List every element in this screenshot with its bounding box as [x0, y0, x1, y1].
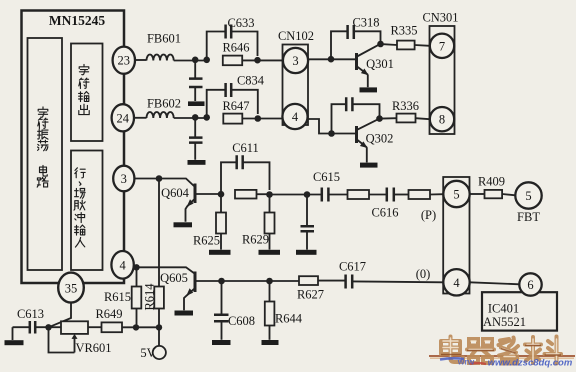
node before C615	[304, 191, 311, 198]
output connector pin 5	[443, 181, 469, 207]
svg-text:C613: C613	[17, 307, 44, 321]
svg-text:5: 5	[453, 188, 459, 202]
wire FB601 to node A1	[174, 60, 207, 62]
bypass capacitor below node	[306, 195, 308, 250]
svg-text:R409: R409	[478, 175, 505, 189]
svg-text:Q301: Q301	[366, 57, 394, 71]
svg-text:C617: C617	[339, 260, 366, 274]
node R644 junction	[266, 278, 273, 285]
output connector box	[443, 177, 469, 294]
svg-text:R644: R644	[275, 312, 303, 326]
inductor FB601	[147, 55, 174, 61]
CN102 pin 3	[283, 48, 308, 73]
potentiometer VR601	[49, 326, 62, 328]
svg-text:35: 35	[65, 281, 78, 295]
watermark char dian	[441, 337, 463, 363]
resistor R629	[269, 195, 271, 213]
watermark char qi	[467, 339, 494, 363]
svg-text:6: 6	[527, 278, 533, 292]
node Q301 collector junction	[377, 41, 384, 48]
capacitor C617	[346, 275, 353, 289]
svg-text:R614: R614	[143, 283, 157, 311]
wire pin35 down to VR601 node	[49, 303, 72, 328]
5V supply terminal	[153, 346, 166, 359]
CN301 pin 7	[430, 34, 454, 58]
svg-text:R649: R649	[95, 307, 122, 321]
svg-text:FBT: FBT	[517, 210, 540, 224]
ground below bypass cap row1	[188, 101, 205, 106]
ground Q301 emitter	[360, 87, 378, 92]
ground below R625	[209, 250, 231, 255]
wire CN102-4 to Q302 base node (with step)	[308, 119, 356, 134]
svg-text:7: 7	[439, 39, 445, 53]
feedback capacitor at Q302	[332, 104, 380, 133]
wire pin3 node down to R614 (crosses pin4 wire)	[158, 179, 160, 287]
svg-text:FB601: FB601	[147, 32, 181, 46]
wire node C1 to CN102-3	[242, 59, 283, 61]
inductor FB602	[147, 112, 174, 118]
ground below R629	[259, 250, 281, 255]
svg-text:3: 3	[121, 172, 127, 186]
wire pin24 to FB602	[134, 117, 147, 119]
resistor R644	[269, 281, 271, 302]
CN102 pin 4	[282, 104, 307, 129]
svg-text:4: 4	[119, 258, 126, 272]
svg-text:R336: R336	[392, 99, 419, 113]
resistor R409	[470, 193, 485, 195]
watermark char zi	[499, 338, 519, 364]
resistor R627	[299, 276, 318, 285]
resistor R649	[102, 322, 123, 332]
wire pin3 to base node	[134, 178, 159, 180]
svg-text:FB602: FB602	[147, 97, 181, 111]
series resistor after C615	[348, 190, 370, 199]
resistor R336	[380, 117, 397, 119]
svg-text:Q605: Q605	[160, 271, 188, 285]
capacitor C616	[387, 188, 394, 202]
wire node C2 to CN102-4	[242, 118, 283, 120]
node R614/5V junction	[156, 324, 162, 330]
svg-text:R625: R625	[193, 234, 220, 248]
IC pin 4	[111, 251, 133, 279]
node B1 junction	[203, 57, 210, 64]
wire C617 to connector pin 4	[353, 280, 443, 283]
svg-text:CN301: CN301	[422, 11, 458, 25]
node A2 junction	[192, 114, 199, 121]
svg-text:MN15245: MN15245	[49, 13, 105, 28]
svg-text:C633: C633	[227, 16, 254, 30]
node R615 bottom junction	[133, 324, 139, 330]
wire connector-4 to terminal 6	[470, 282, 520, 284]
ground Q302 emitter	[360, 163, 378, 168]
wire R649 to 5V rail	[122, 326, 159, 328]
svg-text:Q604: Q604	[161, 186, 190, 200]
capacitor C633 parallel branch	[207, 32, 258, 60]
wire FB602 to node A2	[174, 117, 207, 119]
svg-text:R647: R647	[222, 99, 249, 113]
svg-text:C834: C834	[237, 74, 265, 88]
inner block: character oscillator circuit	[28, 38, 63, 270]
resistor R646	[223, 56, 242, 66]
IC pin 23	[113, 47, 135, 74]
svg-text:IC401: IC401	[488, 302, 519, 316]
ground below bypass cap	[296, 250, 317, 255]
node R629 junction	[266, 191, 273, 198]
svg-text:R627: R627	[297, 288, 324, 302]
inner block: line/field pulse input	[71, 151, 103, 271]
svg-text:AN5521: AN5521	[483, 315, 526, 329]
capacitor C615	[322, 188, 329, 202]
IC pin 3	[113, 166, 134, 192]
resistor R625	[220, 194, 222, 212]
transistor Q604	[194, 184, 197, 204]
series resistor before connector	[409, 190, 431, 199]
node C2 junction	[254, 115, 261, 122]
svg-text:24: 24	[117, 111, 130, 125]
FBT terminal circle 5	[515, 182, 541, 208]
svg-text:5: 5	[525, 189, 531, 203]
terminal circle 6	[519, 273, 541, 295]
resistor R615	[136, 267, 138, 286]
bypass capacitor at node A1	[194, 60, 196, 101]
wire to node C615	[270, 194, 321, 196]
svg-text:C608: C608	[228, 314, 255, 328]
ground below R644	[262, 340, 279, 345]
capacitor C608	[221, 281, 223, 340]
svg-text:R615: R615	[104, 290, 131, 304]
wire CN102-3 to Q301 base node	[308, 58, 355, 60]
svg-text:www.dzsc8dq.com: www.dzsc8dq.com	[488, 358, 573, 369]
svg-text:Q302: Q302	[366, 132, 394, 146]
svg-text:4: 4	[292, 110, 299, 124]
ground below bypass cap row2	[188, 160, 206, 165]
svg-text:R629: R629	[242, 233, 269, 247]
capacitor C611 parallel branch	[221, 162, 270, 194]
watermark char liao	[525, 337, 561, 364]
IC U601 MN15245 outline	[22, 11, 125, 284]
wire pin4 to R615 node	[133, 266, 195, 274]
svg-text:C615: C615	[313, 170, 340, 184]
wire pin23 to FB601	[135, 59, 147, 61]
capacitor C318 feedback branch	[331, 31, 381, 59]
ground below C608	[212, 340, 231, 345]
resistor R335	[381, 44, 398, 45]
svg-text:VR601: VR601	[75, 341, 111, 355]
bypass capacitor at node A2	[194, 117, 196, 159]
ground at C613	[12, 327, 14, 340]
transistor Q301	[355, 53, 358, 70]
connector CN301 box	[430, 26, 455, 134]
node Q604 collector junction	[218, 191, 225, 198]
connector CN102 box	[283, 45, 309, 126]
node Q302 collector junction	[376, 115, 383, 122]
node VR601 junction	[45, 324, 51, 330]
node A1 junction	[192, 57, 199, 64]
node C1 junction	[254, 57, 261, 64]
svg-text:C616: C616	[371, 206, 398, 220]
svg-text:C318: C318	[352, 16, 379, 30]
resistor between Q604 collector nodes	[235, 190, 257, 199]
resistor R614	[154, 287, 164, 309]
capacitor C834 parallel branch	[207, 90, 258, 118]
watermark dark accents	[441, 346, 561, 356]
watermark strike line	[429, 355, 575, 357]
svg-text:R335: R335	[390, 24, 417, 38]
IC pin 35	[58, 273, 84, 303]
ground Q605 emitter	[175, 311, 194, 316]
node Q301 base junction	[328, 56, 335, 63]
resistor R647	[223, 114, 242, 124]
wire Q605 collector row	[222, 280, 300, 282]
IC401 box	[482, 292, 557, 330]
svg-text:23: 23	[118, 54, 131, 68]
inner block: character output	[71, 44, 103, 142]
watermark blue accents	[440, 358, 464, 359]
svg-text:wrw: wrw	[457, 357, 475, 367]
svg-text:(0): (0)	[416, 267, 431, 281]
transistor Q302	[355, 126, 358, 143]
IC pin 24	[112, 104, 134, 131]
svg-text:(P): (P)	[421, 208, 436, 222]
svg-text:R646: R646	[222, 41, 249, 55]
node pin3 junction	[156, 175, 163, 182]
wire node to Q604 base	[159, 179, 195, 187]
svg-text:5V: 5V	[140, 346, 155, 360]
svg-text:4: 4	[453, 276, 460, 290]
node C608 junction	[218, 278, 225, 285]
node R615 top junction	[133, 264, 139, 270]
node B2 junction	[203, 114, 210, 121]
node Q302 base junction	[328, 130, 335, 137]
VR601 wiper return loop	[49, 327, 75, 352]
svg-text:C611: C611	[232, 141, 259, 155]
wire C615 to resistor	[329, 194, 348, 196]
output connector pin 4	[443, 269, 469, 295]
svg-text:CN102: CN102	[278, 29, 314, 43]
svg-text:8: 8	[439, 113, 445, 127]
wire C616 to resistor	[395, 194, 409, 196]
ground Q604 emitter	[174, 222, 193, 227]
transistor Q605	[194, 272, 197, 293]
CN301 pin 8	[430, 107, 454, 131]
svg-text:3: 3	[292, 54, 298, 68]
watermark inner highlights	[443, 338, 559, 361]
